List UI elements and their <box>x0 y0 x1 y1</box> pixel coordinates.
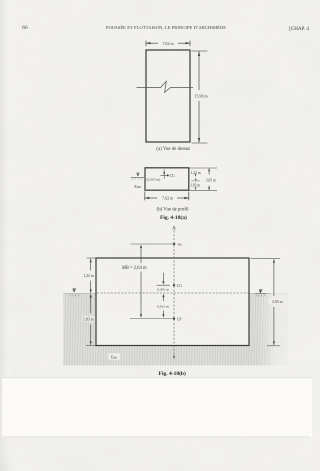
rectangle (b) <box>145 168 189 190</box>
dim 7.62m arrowheads <box>146 42 151 44</box>
right dim ext top <box>192 50 208 52</box>
Eau box (c) <box>108 353 120 360</box>
faded right part of water band <box>0 0 1 1</box>
0.305m arrow <box>162 273 164 282</box>
0.915m arrows <box>162 294 164 298</box>
water band top lines <box>63 293 96 295</box>
right dim ext bottom (b) <box>190 189 218 191</box>
ext line top-left (c) <box>87 257 96 259</box>
3.05m label halo <box>269 298 285 304</box>
dim 1.83m line <box>90 294 92 313</box>
dim 1.22m line <box>90 259 92 271</box>
CG level line <box>157 284 170 286</box>
CG point (b) <box>167 174 169 176</box>
dim 7.62m line right <box>178 42 190 44</box>
ext line bottom-left (c) <box>86 345 96 347</box>
CP point <box>173 318 175 320</box>
3.05m dim line (b) <box>208 168 210 174</box>
white card overlay bottom <box>2 378 312 437</box>
dim 7.62m line left <box>146 42 158 44</box>
CG point (c) <box>173 284 175 286</box>
bottom dim (b) ticks <box>144 192 146 201</box>
water level mark (b) <box>195 179 197 181</box>
centerline <box>173 231 175 358</box>
CP level line <box>130 318 174 320</box>
left water symbol <box>136 172 139 174</box>
right water symbol (c) <box>259 289 263 291</box>
left water symbol (c) <box>73 288 77 290</box>
waterline dashed inside <box>97 292 249 294</box>
M point <box>173 243 175 245</box>
right dim ext bottom <box>192 142 208 144</box>
1.83m label halo <box>82 316 95 321</box>
1.22m label halo <box>83 273 96 278</box>
right dim ext top (b) <box>190 167 218 169</box>
M level line <box>131 243 174 245</box>
dim 7.62m ticks <box>145 41 147 47</box>
big rectangle (c) <box>96 258 249 346</box>
CG arrow inside (b) <box>163 170 165 175</box>
right dim ext top (c) <box>251 258 281 260</box>
left scan edge shading <box>0 0 1 1</box>
dim 15.90m line <box>198 52 200 91</box>
rectangle (a) <box>146 50 190 142</box>
svg-text:Fig. 4-10(b): Fig. 4-10(b) <box>159 370 186 377</box>
bottom-left corner shading <box>0 0 1 1</box>
MB dim line <box>140 247 142 264</box>
right dim ext bottom (c) <box>267 345 280 347</box>
water gray band <box>63 294 287 366</box>
3.05m dim line (c) <box>273 259 275 296</box>
break line <box>137 81 194 92</box>
